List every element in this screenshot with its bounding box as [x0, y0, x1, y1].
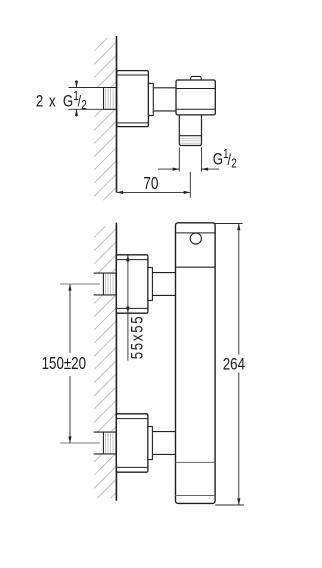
top inlet centreline — [60, 283, 100, 285]
body upper section line — [176, 266, 216, 268]
top escutcheon inner lines — [116, 259, 147, 261]
flange (top view) — [148, 83, 153, 115]
dimension line 2xG1/2 lower arrow — [76, 109, 78, 117]
svg-text:264: 264 — [223, 355, 246, 374]
outlet thread hatch — [180, 138, 201, 143]
escutcheon inner bottom line — [117, 122, 149, 124]
svg-text:150±20: 150±20 — [42, 354, 86, 373]
svg-text:55x55: 55x55 — [128, 315, 147, 360]
body lower section line — [176, 461, 216, 463]
valve body (top view) — [176, 80, 215, 115]
body cap line — [176, 232, 216, 234]
dimension line 2xG1/2 upper arrow — [75, 80, 78, 117]
neck (top view) — [153, 87, 176, 89]
svg-text:x: x — [49, 92, 56, 111]
bottom inlet pipe hole edges — [94, 432, 117, 454]
outlet centre extension line — [189, 172, 191, 198]
bottom inlet pipe thread hatch — [106, 433, 116, 453]
wall hatching (bottom view) — [94, 202, 117, 515]
bottom inlet centreline — [60, 442, 100, 444]
svg-text:70: 70 — [143, 174, 158, 193]
top inlet pipe hole edges — [94, 273, 117, 295]
wall hatching (top view) — [94, 29, 117, 223]
G1/2 dimension right arrow — [202, 168, 220, 170]
dimension line 70 — [117, 191, 191, 194]
valve body inner top line — [176, 88, 215, 90]
bottom escutcheon inner lines — [116, 418, 147, 420]
wall line (bottom view) — [115, 223, 117, 501]
outlet spout (top view) — [179, 115, 201, 146]
escutcheon inner top line — [117, 74, 149, 76]
wall line (top view) — [116, 36, 118, 192]
outlet thread top line — [179, 135, 201, 137]
extension lines outlet G1/2 — [179, 148, 201, 172]
inlet pipe (top view) — [104, 88, 117, 110]
extension lines for 2xG1/2 dimension — [69, 88, 104, 110]
bottom flange — [148, 427, 153, 460]
top flange — [148, 268, 153, 301]
150±20 dimension line — [68, 284, 71, 443]
valve body inner bottom line — [176, 108, 215, 110]
svg-text:2: 2 — [36, 92, 43, 111]
bottom escutcheon (bottom view) — [116, 414, 147, 472]
264 extension line bottom — [215, 504, 244, 506]
G1/2 dimension left arrow — [158, 168, 219, 171]
body bottom cap line — [176, 495, 216, 497]
top inlet pipe thread hatch — [106, 274, 116, 294]
264 extension line top — [215, 223, 243, 225]
bottom neck — [152, 431, 175, 433]
escutcheon plate (top view) — [117, 71, 149, 127]
main body column — [176, 223, 216, 504]
inlet pipe thread hatch (top view) — [106, 88, 116, 108]
264 dimension line — [237, 224, 240, 506]
55x55 dimension line with arrows — [126, 255, 129, 361]
body screw circle — [190, 233, 201, 244]
knob on top of valve body — [190, 76, 201, 79]
top escutcheon (bottom view) — [116, 255, 147, 313]
top neck — [152, 272, 175, 274]
